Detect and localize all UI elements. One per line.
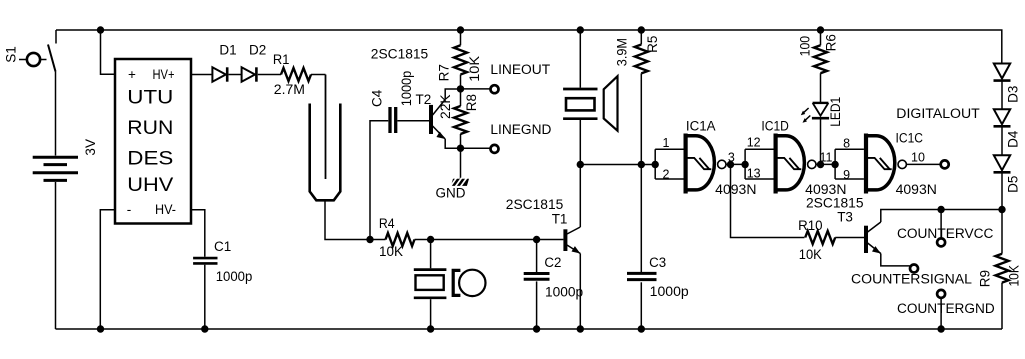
svg-text:22K: 22K (438, 94, 453, 119)
capacitor C1 (193, 258, 217, 263)
wire IC1A out down to R10 (731, 165, 805, 238)
svg-text:LINEOUT: LINEOUT (490, 62, 550, 77)
diode D3 (994, 64, 1011, 81)
svg-text:10K: 10K (467, 56, 482, 82)
node mic ground (427, 325, 434, 332)
microphone shell (453, 270, 485, 296)
node C2 top (533, 236, 540, 243)
svg-text:4093N: 4093N (715, 182, 756, 197)
node COUNTERGND ground (937, 325, 944, 332)
wire IC1D output (816, 163, 835, 165)
wire top supply bus (56, 30, 1002, 64)
capacitor C3 (627, 273, 657, 279)
node ground bus / box minus (97, 325, 104, 332)
led LED1 (801, 103, 829, 123)
wire box HV- to C1 (191, 210, 205, 257)
wire S1 top stub (55, 30, 57, 44)
node C2 ground (533, 325, 540, 332)
resistor R5 (635, 45, 648, 74)
svg-text:C2: C2 (544, 255, 561, 270)
transistor T1 (563, 227, 580, 254)
svg-text:D2: D2 (249, 43, 266, 58)
wire to GND (460, 148, 462, 179)
terminal COUNTERGND (937, 290, 945, 298)
geiger tube anode wire (325, 75, 327, 180)
wire R10 to T3 base (835, 237, 864, 239)
node IC1A input split (652, 161, 659, 168)
resistor R8 (454, 106, 467, 134)
wire R7 top (460, 30, 462, 45)
svg-text:3.9M: 3.9M (615, 38, 630, 66)
svg-text:+: + (128, 67, 136, 82)
node D5/R9/T3 collector (998, 206, 1005, 213)
node top bus / R6 (817, 26, 824, 33)
node IC1D input split (741, 161, 748, 168)
svg-text:4093N: 4093N (896, 182, 937, 197)
wire T3 emitter (881, 254, 910, 266)
svg-text:DIGITALOUT: DIGITALOUT (896, 106, 980, 121)
node LINEGND (457, 145, 464, 152)
svg-text:1000p: 1000p (216, 269, 253, 284)
svg-text:D3: D3 (1005, 86, 1020, 103)
wire D3 to D4 (1001, 81, 1003, 110)
wire C3 bottom (640, 282, 642, 329)
svg-text:UTU: UTU (127, 88, 173, 109)
terminal DIGITALOUT (941, 160, 949, 168)
wire IC1A input box (655, 149, 683, 179)
diode D1 (212, 67, 227, 81)
battery BAT 3V plates (33, 157, 78, 180)
wire D2 to R1 (258, 74, 281, 76)
transistor T3 (864, 222, 881, 254)
node tube/R4/C4 (366, 236, 373, 243)
wire box HV+ to D1 (191, 74, 212, 76)
node C1 ground (201, 325, 208, 332)
svg-text:1000p: 1000p (650, 284, 689, 299)
node C3 ground (638, 325, 645, 332)
svg-text:8: 8 (843, 136, 850, 150)
node mid bus / R5-C3 (638, 161, 645, 168)
svg-text:UHV: UHV (127, 175, 173, 196)
wire bottom ground bus (56, 328, 1003, 330)
node LINEOUT (457, 85, 464, 92)
wire D1 to D2 (229, 74, 242, 76)
node T1 emitter ground (577, 325, 584, 332)
wire R6 to LED (820, 73, 822, 103)
wire C4 left lead (370, 121, 388, 240)
svg-text:D4: D4 (1005, 130, 1020, 148)
switch S1 terminal ticks (19, 59, 47, 61)
node top bus / R7 (457, 26, 464, 33)
svg-text:100: 100 (797, 36, 812, 57)
svg-text:12: 12 (747, 135, 761, 149)
resistor R4 (386, 233, 415, 246)
node top bus / box feed (97, 26, 104, 33)
ground GND symbol (450, 178, 469, 187)
svg-text:1000p: 1000p (399, 71, 414, 107)
wire T2 collector (445, 89, 460, 100)
switch S1 terminal circle (27, 53, 40, 66)
wire to LINEOUT terminal (461, 88, 491, 90)
svg-text:IC1D: IC1D (761, 118, 789, 133)
terminal LINEOUT (491, 85, 499, 93)
terminal COUNTERSIGNAL (910, 265, 918, 273)
wire R6 top (820, 30, 822, 45)
wire mic to ground bus (430, 299, 432, 329)
svg-text:2.7M: 2.7M (274, 82, 305, 97)
nand gate IC1D (774, 134, 817, 194)
wire COUNTERGND drop (940, 298, 942, 329)
svg-text:DES: DES (127, 149, 173, 170)
svg-text:T2: T2 (416, 92, 432, 107)
nand gate IC1A (684, 134, 727, 194)
diode D5 (994, 155, 1011, 172)
wire IC1A output (726, 163, 745, 165)
wire R1 to tube (311, 74, 326, 76)
diode D4 (994, 109, 1011, 126)
wire box - to ground (100, 210, 115, 329)
speaker cone (604, 76, 618, 131)
transistor T2 (429, 100, 445, 140)
svg-text:2SC1815: 2SC1815 (506, 197, 564, 212)
wire mic drop (430, 240, 432, 269)
svg-text:R5: R5 (645, 36, 660, 53)
wire D5 to R9 (1001, 172, 1003, 253)
node IC1D out / LED (817, 161, 824, 168)
svg-text:R6: R6 (824, 34, 839, 51)
capacitor C4 (390, 107, 396, 133)
wire T1 emitter down (579, 254, 581, 330)
svg-text:IC1C: IC1C (896, 131, 924, 146)
speaker piezo element (563, 89, 597, 119)
wire R7 bottom (460, 75, 462, 89)
wire mid bus (580, 164, 655, 166)
svg-text:1: 1 (663, 136, 670, 150)
svg-text:-: - (127, 202, 132, 217)
svg-text:COUNTERGND: COUNTERGND (897, 301, 995, 316)
wire tube cathode to R4 node (325, 200, 370, 239)
wire R9 to ground bus (1001, 283, 1003, 329)
wire R4 to T1 base (415, 239, 564, 241)
wire IC1C output (907, 163, 941, 165)
node top bus / speaker (577, 26, 584, 33)
resistor R1 (281, 68, 311, 81)
resistor R7 (454, 45, 467, 74)
wire IC1C input box (835, 149, 864, 179)
wire R8 leads (460, 89, 462, 148)
svg-text:D1: D1 (219, 43, 236, 58)
wire to LINEGND terminal (461, 147, 491, 149)
nand gate IC1C (864, 134, 907, 194)
node IC1A out / R10 (727, 161, 734, 168)
svg-text:C1: C1 (214, 239, 231, 254)
wire IC1D input box (745, 149, 773, 179)
svg-text:R8: R8 (464, 94, 479, 111)
svg-text:D5: D5 (1005, 176, 1020, 193)
wire LED to IC1D out (820, 120, 822, 165)
node IC1C input split (831, 161, 838, 168)
svg-text:C3: C3 (649, 255, 666, 270)
svg-text:10: 10 (911, 151, 925, 165)
svg-text:2SC1815: 2SC1815 (806, 196, 864, 211)
svg-text:RUN: RUN (127, 118, 173, 139)
diode D2 (242, 67, 257, 81)
svg-text:10K: 10K (1006, 265, 1021, 287)
node COUNTERVCC (937, 206, 944, 213)
wire R5 top (640, 30, 642, 45)
svg-text:T1: T1 (552, 212, 568, 227)
wire switch to battery (55, 72, 57, 156)
svg-text:10K: 10K (379, 244, 403, 259)
microphone piezo element (414, 270, 447, 298)
wire C2 top lead (536, 240, 538, 273)
svg-text:COUNTERVCC: COUNTERVCC (897, 226, 994, 241)
svg-text:GND: GND (436, 186, 466, 201)
svg-text:C4: C4 (370, 89, 385, 107)
svg-text:HV+: HV+ (153, 67, 175, 82)
node top bus / R5 (638, 26, 645, 33)
resistor R9 (996, 254, 1009, 283)
wire T3 collector (881, 210, 1002, 223)
wire T1 collector up (579, 120, 581, 227)
svg-text:S1: S1 (3, 46, 18, 63)
svg-text:HV-: HV- (155, 202, 176, 217)
svg-text:T3: T3 (837, 210, 853, 225)
box UTU RUN DES UHV converter (115, 59, 191, 224)
wire R4 left (370, 239, 386, 241)
svg-text:9: 9 (843, 168, 850, 182)
capacitor C2 (524, 274, 550, 280)
wire speaker top feed (579, 30, 581, 88)
svg-text:R4: R4 (379, 216, 395, 231)
geiger tube envelope (310, 104, 341, 201)
wire box + feed (101, 30, 116, 74)
switch S1 blade (48, 45, 56, 72)
wire C1 to ground bus (204, 265, 206, 329)
wire T2 emitter (445, 139, 460, 148)
svg-text:3V: 3V (83, 139, 98, 156)
node mid bus / T1 collector (577, 161, 584, 168)
node mic top (427, 236, 434, 243)
svg-text:2: 2 (663, 167, 670, 181)
svg-text:IC1A: IC1A (686, 118, 716, 133)
svg-text:COUNTERSIGNAL: COUNTERSIGNAL (851, 271, 972, 286)
wire R5 to C3 (640, 73, 642, 272)
svg-text:LINEGND: LINEGND (490, 122, 551, 137)
svg-text:LED1: LED1 (828, 97, 843, 127)
svg-text:R10: R10 (798, 218, 822, 233)
wire COUNTERVCC drop (940, 210, 942, 239)
wire C2 bottom lead (536, 281, 538, 329)
svg-text:10K: 10K (799, 247, 822, 262)
svg-text:13: 13 (747, 167, 761, 181)
wire battery to ground bus (55, 182, 57, 329)
svg-text:R1: R1 (273, 52, 290, 67)
svg-text:R7: R7 (437, 64, 452, 81)
terminal LINEGND (491, 145, 499, 153)
resistor R10 (805, 231, 835, 244)
terminal COUNTERVCC (937, 238, 945, 246)
svg-text:R9: R9 (977, 270, 992, 287)
wire D4 to D5 (1001, 126, 1003, 155)
wire C4 to T2 base (397, 120, 429, 122)
svg-text:2SC1815: 2SC1815 (371, 46, 428, 61)
svg-text:1000p: 1000p (545, 284, 583, 299)
resistor R6 (814, 45, 827, 73)
